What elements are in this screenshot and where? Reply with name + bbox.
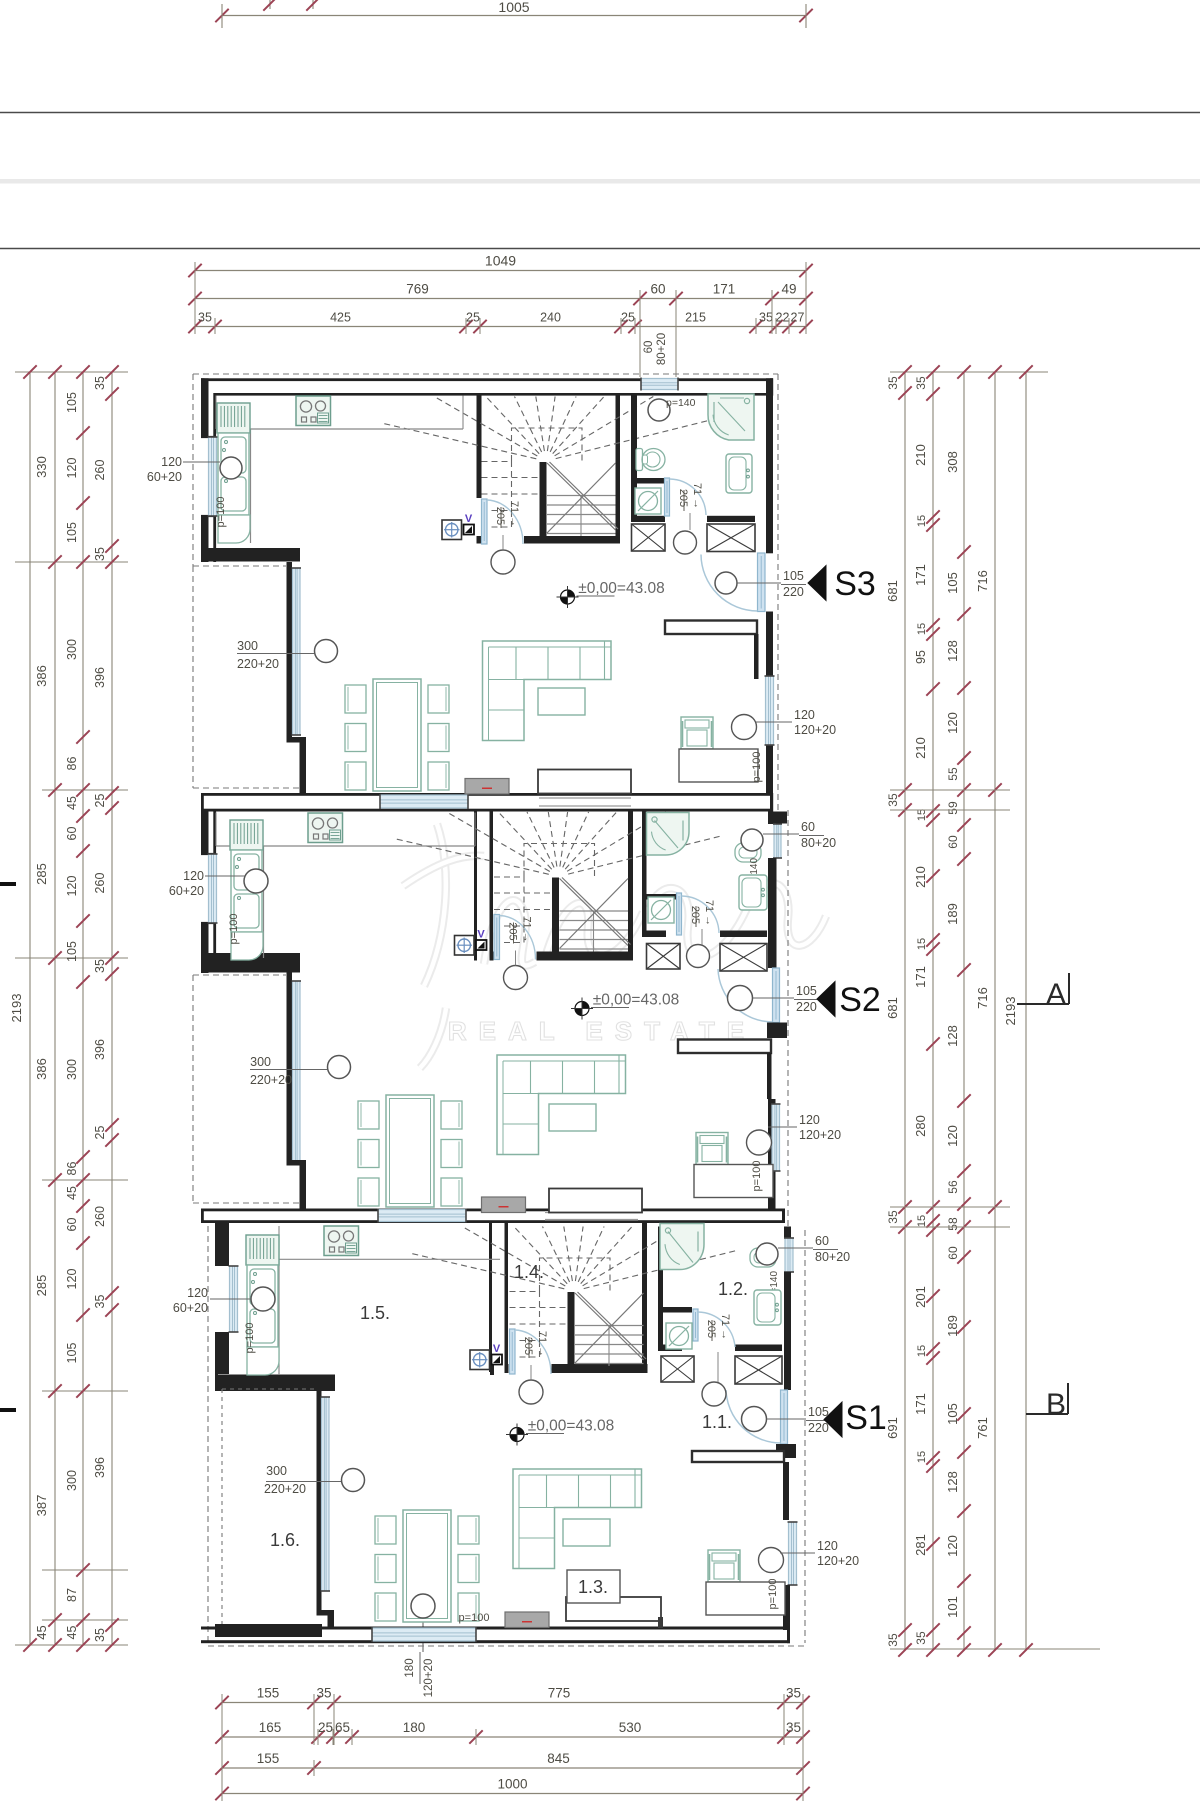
svg-text:27: 27 xyxy=(791,311,805,325)
svg-text:387: 387 xyxy=(34,1495,49,1517)
svg-text:25: 25 xyxy=(93,794,107,808)
svg-text:128: 128 xyxy=(945,640,960,662)
svg-text:60: 60 xyxy=(946,1246,960,1260)
svg-text:189: 189 xyxy=(945,903,960,925)
section stub left A xyxy=(0,882,16,886)
level marker xyxy=(568,590,575,597)
svg-text:716: 716 xyxy=(975,570,990,592)
bathroom sink xyxy=(754,1290,781,1325)
stair treads xyxy=(575,1325,644,1327)
svg-text:105: 105 xyxy=(808,1405,829,1419)
svg-text:▬▬: ▬▬ xyxy=(499,1204,509,1210)
closet crossed box xyxy=(735,1356,782,1384)
svg-text:105: 105 xyxy=(783,569,804,583)
svg-text:±0,00=43.08: ±0,00=43.08 xyxy=(528,1418,615,1435)
svg-text:▬▬: ▬▬ xyxy=(482,785,492,791)
svg-text:15: 15 xyxy=(916,1215,928,1227)
svg-text:120+20: 120+20 xyxy=(794,723,836,737)
svg-text:681: 681 xyxy=(885,580,900,602)
svg-text:260: 260 xyxy=(93,460,107,481)
right dimension block xyxy=(904,372,906,1650)
U1 kitchen xyxy=(215,396,217,430)
U3 entry door S1 xyxy=(781,1390,788,1444)
svg-text:775: 775 xyxy=(548,1686,571,1701)
svg-text:35: 35 xyxy=(886,1210,900,1224)
svg-text:120: 120 xyxy=(65,458,79,479)
washing machine xyxy=(635,488,661,514)
desk xyxy=(706,1582,785,1615)
svg-text:716: 716 xyxy=(975,987,990,1009)
svg-text:p=100: p=100 xyxy=(751,1161,763,1192)
low cabinet xyxy=(566,1597,661,1621)
dining chairs xyxy=(358,1101,379,1129)
svg-text:49: 49 xyxy=(781,282,796,297)
svg-text:260: 260 xyxy=(93,1206,107,1227)
level marker xyxy=(582,1002,589,1009)
stair rail diagonals xyxy=(547,463,616,530)
level marker xyxy=(517,1428,524,1435)
svg-text:105: 105 xyxy=(65,941,79,962)
svg-text:80+20: 80+20 xyxy=(656,333,668,365)
U1 window label 120/120+20 xyxy=(756,721,792,723)
U1 entry door S3 xyxy=(758,553,766,612)
svg-text:210: 210 xyxy=(913,444,928,466)
U3 terrace dashed + bottom wall xyxy=(221,1389,223,1624)
svg-text:105: 105 xyxy=(65,392,79,413)
U3 hall lower wall xyxy=(692,1451,784,1462)
svg-text:A: A xyxy=(1046,978,1066,1011)
svg-text:95: 95 xyxy=(914,650,928,664)
U2 left window xyxy=(209,854,217,923)
U3 60/80+20 label xyxy=(778,1247,813,1249)
kitchen stove xyxy=(296,396,331,426)
svg-text:210: 210 xyxy=(913,737,928,759)
U1 step wall xyxy=(201,548,300,562)
desk xyxy=(679,749,758,782)
svg-text:86: 86 xyxy=(65,757,79,771)
svg-text:35: 35 xyxy=(759,311,773,325)
U3 right outer wall upper xyxy=(784,1227,791,1239)
U2 living west wall + window xyxy=(287,973,293,1161)
svg-text:71 →: 71 → xyxy=(703,900,715,926)
U3 bottom window 180/120+20 xyxy=(372,1628,476,1641)
U2 bottom window xyxy=(378,1210,466,1222)
svg-text:120+20: 120+20 xyxy=(817,1554,859,1568)
svg-text:35: 35 xyxy=(886,793,900,807)
U3 bathroom west wall xyxy=(658,1227,663,1308)
svg-text:396: 396 xyxy=(93,667,107,688)
dining table xyxy=(386,1095,434,1207)
svg-text:65: 65 xyxy=(335,1720,350,1735)
svg-text:60+20: 60+20 xyxy=(147,470,182,484)
svg-text:1.6.: 1.6. xyxy=(270,1530,300,1550)
svg-text:120: 120 xyxy=(945,1535,960,1557)
svg-text:35: 35 xyxy=(914,1631,928,1645)
armchair xyxy=(708,1550,740,1582)
svg-text:71 →: 71 → xyxy=(691,483,703,509)
U1 bathroom fixtures xyxy=(648,399,670,421)
svg-text:55: 55 xyxy=(946,767,960,781)
shower tray xyxy=(708,394,754,440)
desk chair circle xyxy=(747,1130,772,1155)
top dimension 1005 xyxy=(222,15,806,17)
U3 step wall xyxy=(215,1375,335,1392)
svg-text:60: 60 xyxy=(801,820,815,834)
svg-text:1.1.: 1.1. xyxy=(702,1412,732,1432)
svg-text:71 →: 71 → xyxy=(536,1331,548,1357)
svg-text:60+20: 60+20 xyxy=(173,1301,208,1315)
kitchen fridge xyxy=(230,820,263,850)
svg-text:530: 530 xyxy=(619,1720,642,1735)
svg-text:1.5.: 1.5. xyxy=(360,1303,390,1323)
svg-text:300: 300 xyxy=(65,639,79,660)
kitchen stove xyxy=(324,1226,359,1256)
svg-text:205: 205 xyxy=(507,922,519,940)
U1 right outer wall xyxy=(766,378,773,553)
coffee table xyxy=(563,1519,610,1546)
svg-text:60: 60 xyxy=(65,827,79,841)
U3 right window 120/120+20 xyxy=(789,1522,797,1585)
svg-text:60: 60 xyxy=(946,835,960,849)
stair fan dashed rays xyxy=(568,836,721,874)
svg-text:15: 15 xyxy=(916,515,928,527)
svg-text:2193: 2193 xyxy=(1003,997,1018,1026)
top dimension chains xyxy=(195,270,806,272)
svg-text:60: 60 xyxy=(815,1234,829,1248)
svg-text:25: 25 xyxy=(318,1720,333,1735)
svg-text:±0,00=43.08: ±0,00=43.08 xyxy=(593,992,680,1009)
svg-text:300: 300 xyxy=(237,639,258,653)
svg-text:35: 35 xyxy=(93,376,107,390)
kitchen sink double basin xyxy=(247,1265,278,1347)
S3 triangle marker xyxy=(808,566,826,601)
svg-text:105: 105 xyxy=(65,1343,79,1364)
svg-text:300: 300 xyxy=(266,1464,287,1478)
U2 right window 120/120+20 xyxy=(768,1099,776,1211)
U1 left outer wall xyxy=(201,378,209,437)
dining table xyxy=(373,679,421,791)
svg-text:761: 761 xyxy=(975,1417,990,1439)
svg-text:120: 120 xyxy=(183,869,204,883)
svg-text:215: 215 xyxy=(685,311,706,325)
U2 window label 120/120+20 xyxy=(768,1126,797,1128)
hall lamp circle xyxy=(491,550,515,574)
svg-text:35: 35 xyxy=(786,1720,801,1735)
svg-text:71 →: 71 → xyxy=(719,1314,731,1340)
svg-text:769: 769 xyxy=(406,282,429,297)
stair landing dashed xyxy=(524,844,595,877)
wash basin xyxy=(750,1248,776,1267)
section stub left B xyxy=(0,1408,16,1412)
svg-text:220+20: 220+20 xyxy=(250,1073,292,1087)
svg-text:171: 171 xyxy=(913,966,928,988)
svg-text:280: 280 xyxy=(913,1115,928,1137)
svg-text:845: 845 xyxy=(547,1751,570,1766)
svg-text:120: 120 xyxy=(65,876,79,897)
svg-text:205: 205 xyxy=(677,489,689,507)
svg-text:308: 308 xyxy=(945,451,960,473)
U1 living west wall + window 300/220+20 xyxy=(287,562,293,740)
U3 boundary dashes xyxy=(207,1226,209,1643)
svg-text:35: 35 xyxy=(93,1295,107,1309)
kitchen lower cabinet xyxy=(231,932,263,960)
svg-text:15: 15 xyxy=(916,623,928,635)
svg-text:205: 205 xyxy=(494,507,506,525)
plan outer dashed boundary (top) xyxy=(193,373,778,375)
kitchen lower cabinet xyxy=(218,515,250,543)
svg-text:205: 205 xyxy=(705,1320,717,1338)
U2 bathroom door xyxy=(677,893,682,935)
ventilation grille xyxy=(455,936,475,956)
svg-text:165: 165 xyxy=(259,1720,282,1735)
svg-text:p=100: p=100 xyxy=(751,752,763,783)
bathroom sink xyxy=(726,454,752,493)
U1 kitchen window label xyxy=(220,457,242,479)
U1 top window 60/80+20 xyxy=(641,379,678,390)
kitchen stove xyxy=(308,813,343,843)
desk chair circle xyxy=(732,715,757,740)
svg-text:71 →: 71 → xyxy=(508,501,520,527)
svg-text:35: 35 xyxy=(93,1628,107,1642)
svg-text:396: 396 xyxy=(93,1039,107,1060)
svg-text:2193: 2193 xyxy=(9,994,24,1023)
svg-text:p=100: p=100 xyxy=(244,1323,256,1354)
U3 180/120+20 circle xyxy=(411,1594,435,1618)
U3 bathroom south wall xyxy=(658,1345,682,1352)
svg-text:35: 35 xyxy=(914,376,928,390)
svg-text:120: 120 xyxy=(817,1539,838,1553)
washing machine xyxy=(648,897,674,923)
svg-text:155: 155 xyxy=(257,1751,280,1766)
svg-text:220: 220 xyxy=(783,585,804,599)
dining chairs xyxy=(375,1516,396,1544)
TV sideboard xyxy=(505,1612,549,1628)
svg-text:25: 25 xyxy=(93,1126,107,1140)
svg-text:60: 60 xyxy=(65,1218,79,1232)
U2 stair enclosure xyxy=(474,812,477,961)
stair spine wall xyxy=(568,1292,575,1367)
ventilation grille xyxy=(442,520,462,540)
svg-text:105: 105 xyxy=(796,984,817,998)
kitchen lower cabinet xyxy=(247,1347,279,1375)
desk xyxy=(694,1165,773,1198)
hall lamp circle xyxy=(504,966,528,990)
svg-text:V: V xyxy=(465,513,473,525)
hall lamp circle xyxy=(519,1380,543,1404)
svg-text:396: 396 xyxy=(93,1457,107,1478)
svg-text:171: 171 xyxy=(713,282,736,297)
svg-text:45: 45 xyxy=(34,1625,49,1639)
S2 triangle marker xyxy=(817,982,835,1017)
svg-text:201: 201 xyxy=(913,1286,928,1308)
svg-text:35: 35 xyxy=(316,1686,331,1701)
svg-text:S1: S1 xyxy=(845,1399,887,1437)
svg-text:80+20: 80+20 xyxy=(801,836,836,850)
U3 stair enclosure xyxy=(489,1223,492,1372)
svg-text:425: 425 xyxy=(330,311,351,325)
svg-text:101: 101 xyxy=(945,1596,960,1618)
svg-text:59: 59 xyxy=(946,801,960,815)
armchair xyxy=(696,1133,728,1165)
svg-text:330: 330 xyxy=(34,456,49,478)
svg-text:300: 300 xyxy=(250,1055,271,1069)
stair door 71/205 leaf + arc xyxy=(494,915,500,960)
svg-text:300: 300 xyxy=(65,1470,79,1491)
U2 hall lower wall xyxy=(678,1040,771,1054)
svg-text:1.2.: 1.2. xyxy=(718,1279,748,1299)
coffee table xyxy=(538,688,585,715)
stair door 71/205 leaf + arc xyxy=(510,1329,516,1374)
svg-text:25: 25 xyxy=(466,311,480,325)
U3 bathroom door xyxy=(693,1309,698,1341)
svg-text:180: 180 xyxy=(404,1658,416,1677)
svg-text:105: 105 xyxy=(65,522,79,543)
U3 living west wall + window 300/220+20 xyxy=(317,1391,322,1614)
svg-text:86: 86 xyxy=(65,1162,79,1176)
svg-text:1049: 1049 xyxy=(485,253,516,269)
desk chair circle xyxy=(759,1548,784,1573)
svg-text:205: 205 xyxy=(522,1337,534,1355)
shower tray xyxy=(660,1224,704,1270)
stair landing dashed xyxy=(540,1258,611,1291)
washing machine xyxy=(666,1323,692,1349)
shower tray xyxy=(647,813,690,856)
bottom dimension block xyxy=(222,1702,803,1704)
stair door 71/205 leaf + arc xyxy=(482,499,488,544)
U3 window label 120/120+20 xyxy=(780,1552,815,1554)
stair fan dashed rays xyxy=(584,1250,737,1288)
svg-text:220: 220 xyxy=(808,1421,829,1435)
svg-text:80+20: 80+20 xyxy=(815,1250,850,1264)
svg-text:260: 260 xyxy=(93,873,107,894)
U1 stair enclosure walls xyxy=(477,396,482,499)
svg-text:300: 300 xyxy=(65,1059,79,1080)
U3 kitchen xyxy=(278,1226,280,1259)
svg-text:15: 15 xyxy=(916,938,928,950)
svg-text:171: 171 xyxy=(913,564,928,586)
watermark script + REAL ESTATE xyxy=(403,824,826,1068)
svg-text:120: 120 xyxy=(161,455,182,469)
corner sofa xyxy=(497,1055,626,1155)
toilet xyxy=(636,449,643,471)
low cabinet xyxy=(549,1189,642,1213)
svg-text:87: 87 xyxy=(65,1588,79,1602)
U1 hall lower wall (hollow) xyxy=(665,621,757,635)
kitchen sink double basin xyxy=(231,850,262,932)
svg-text:15: 15 xyxy=(916,809,928,821)
svg-text:p=100: p=100 xyxy=(215,497,227,528)
svg-text:71 →: 71 → xyxy=(521,916,533,942)
bathroom sink xyxy=(739,875,767,910)
U1 bottom window xyxy=(380,795,468,808)
svg-text:681: 681 xyxy=(885,997,900,1019)
svg-text:180: 180 xyxy=(403,1720,426,1735)
svg-text:220+20: 220+20 xyxy=(237,657,279,671)
closet crossed box xyxy=(720,944,767,972)
svg-text:56: 56 xyxy=(946,1180,960,1194)
svg-text:171: 171 xyxy=(913,1393,928,1415)
TV sideboard xyxy=(482,1197,526,1213)
svg-text:1005: 1005 xyxy=(498,0,529,15)
svg-text:128: 128 xyxy=(945,1471,960,1493)
page separator lines xyxy=(0,112,1200,114)
stair rail diagonals xyxy=(575,1293,644,1360)
stair rail diagonals xyxy=(560,879,629,946)
svg-text:45: 45 xyxy=(65,1626,79,1640)
svg-text:60: 60 xyxy=(643,341,655,354)
closet crossed box xyxy=(632,524,666,551)
kitchen fridge xyxy=(246,1235,279,1265)
U1 bathroom door xyxy=(665,478,670,516)
U2 left outer wall xyxy=(201,812,209,855)
svg-text:35: 35 xyxy=(93,959,107,973)
svg-text:691: 691 xyxy=(885,1417,900,1439)
svg-text:285: 285 xyxy=(34,1275,49,1297)
U3 door label 105/220 + S1 xyxy=(742,1407,767,1432)
corner sofa xyxy=(513,1469,642,1569)
U2/U3 boundary wall xyxy=(201,1209,785,1212)
svg-text:25: 25 xyxy=(621,311,635,325)
closet crossed box xyxy=(707,524,755,552)
svg-text:386: 386 xyxy=(34,665,49,687)
svg-text:1.4.: 1.4. xyxy=(514,1262,544,1282)
svg-text:V: V xyxy=(477,929,485,941)
coffee table xyxy=(549,1104,596,1131)
svg-text:S2: S2 xyxy=(839,981,881,1019)
svg-text:285: 285 xyxy=(34,863,49,885)
U3 left outer wall xyxy=(215,1223,229,1266)
ventilation grille xyxy=(470,1350,490,1370)
svg-text:281: 281 xyxy=(913,1534,928,1556)
U3 left window 120/60+20 xyxy=(230,1266,238,1332)
svg-text:p=100: p=100 xyxy=(767,1579,779,1610)
svg-text:120: 120 xyxy=(799,1113,820,1127)
corner sofa xyxy=(483,641,612,741)
dining chairs xyxy=(345,685,366,713)
svg-text:35: 35 xyxy=(886,376,900,390)
stair treads xyxy=(560,910,629,912)
svg-text:p=100: p=100 xyxy=(228,914,240,945)
svg-text:386: 386 xyxy=(34,1058,49,1080)
U1 right window 120/120+20 xyxy=(766,676,774,745)
svg-text:35: 35 xyxy=(93,547,107,561)
U1 door label 105/220 + S3 xyxy=(715,572,737,594)
U2 kitchen window label xyxy=(244,869,268,893)
svg-text:120+20: 120+20 xyxy=(423,1659,435,1698)
U1 terrace dashed xyxy=(192,566,194,788)
wash basin xyxy=(735,843,761,862)
U2 bathroom south wall xyxy=(642,931,666,938)
stair spine wall xyxy=(540,462,547,537)
closet crossed box xyxy=(647,944,681,970)
svg-text:105: 105 xyxy=(945,1403,960,1425)
U2 terrace dashed xyxy=(192,975,194,1203)
svg-text:±0,00=43.08: ±0,00=43.08 xyxy=(578,580,665,597)
svg-text:B: B xyxy=(1046,1388,1066,1421)
svg-text:p=140: p=140 xyxy=(666,397,696,409)
kitchen fridge xyxy=(217,403,250,433)
U1 top outer wall xyxy=(201,378,773,381)
svg-text:35: 35 xyxy=(786,1686,801,1701)
U2 bathroom west wall xyxy=(642,812,647,895)
low cabinet xyxy=(538,770,631,794)
svg-text:220: 220 xyxy=(796,1000,817,1014)
U3 bottom wall xyxy=(201,1627,790,1630)
U1 left window 120/60+20 xyxy=(209,437,217,516)
svg-text:105: 105 xyxy=(945,572,960,594)
U2 boundary dashes xyxy=(787,810,789,1226)
svg-text:45: 45 xyxy=(65,796,79,810)
